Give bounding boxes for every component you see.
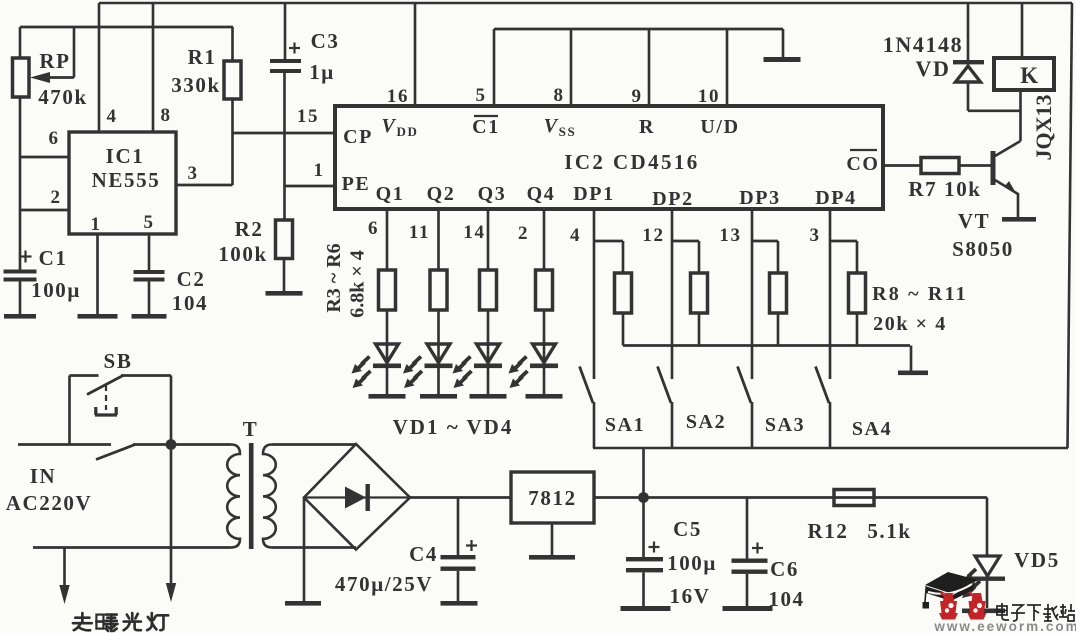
switch SA1 lever: [580, 367, 594, 404]
capacitor C6: [732, 559, 768, 563]
diode VD cathode bar: [953, 60, 984, 64]
resistor R8: [615, 273, 632, 313]
potentiometer RP body: [13, 58, 30, 97]
svg-text:C3: C3: [311, 29, 340, 53]
svg-text:C4: C4: [409, 542, 438, 566]
pushbutton SB cap: [95, 413, 117, 416]
potentiometer RP lead top: [19, 27, 22, 58]
resistor R12: [834, 490, 874, 506]
svg-text:SA4: SA4: [852, 418, 892, 440]
wire Q1 pin: [386, 209, 389, 270]
svg-text:470k: 470k: [38, 85, 88, 109]
relay K box: [994, 58, 1054, 90]
wire R2 bottom: [283, 259, 286, 293]
wire top bus (pins 5,8,9,10): [494, 28, 783, 31]
svg-text:VD1 ~ VD4: VD1 ~ VD4: [393, 415, 514, 439]
resistor R2: [276, 220, 293, 259]
watermark pen icon: [925, 572, 978, 594]
watermark 电子下载站: [997, 603, 1075, 621]
label 去曝光灯: [73, 613, 168, 631]
svg-text:C5: C5: [673, 517, 702, 541]
capacitor C5 plus: [649, 546, 660, 548]
wire secondary bottom: [272, 546, 356, 549]
svg-text:Q2: Q2: [427, 183, 456, 205]
svg-text:16: 16: [387, 86, 409, 107]
wire R6 to LED: [543, 310, 546, 363]
wire secondary top: [272, 443, 356, 446]
wire VD3 cathode: [487, 368, 490, 394]
svg-text:VD: VD: [916, 56, 951, 81]
svg-text:R2: R2: [235, 217, 264, 241]
potentiometer RP wiper: [73, 27, 76, 78]
ground C6: [723, 606, 773, 611]
wire R11 bottom: [856, 313, 859, 346]
led VD2 arrows: [413, 357, 421, 365]
svg-text:C1: C1: [39, 246, 68, 270]
wire VD1 cathode: [386, 368, 389, 394]
svg-text:Q3: Q3: [478, 183, 507, 205]
wire C4 bottom: [457, 571, 460, 601]
svg-text:12: 12: [642, 225, 664, 246]
svg-text:Q1: Q1: [376, 183, 405, 205]
wire AC top-right: [133, 443, 231, 446]
switch SA4 lever: [816, 367, 830, 404]
bridge rectifier diamond: [304, 444, 410, 550]
wire relay top: [1021, 3, 1024, 58]
wire R9 bottom: [698, 313, 701, 346]
svg-text:104: 104: [172, 291, 208, 315]
ground 7812: [529, 555, 575, 560]
wire RP bottom / left column: [19, 97, 22, 270]
led VD3: [477, 344, 500, 363]
svg-text:2: 2: [518, 223, 529, 244]
svg-text:C1: C1: [472, 116, 500, 138]
wire R3 to LED: [386, 310, 389, 363]
svg-text:1N4148: 1N4148: [883, 32, 964, 57]
svg-text:SA2: SA2: [686, 411, 726, 433]
arrow to lamp 2: [170, 445, 173, 586]
svg-text:R12: R12: [808, 519, 849, 543]
ground C2: [132, 314, 167, 319]
svg-text:14: 14: [463, 222, 485, 243]
wire R5 to LED: [487, 310, 490, 363]
svg-text:NE555: NE555: [92, 168, 161, 192]
switch SA3 lever: [738, 367, 752, 404]
svg-text:R: R: [639, 116, 655, 138]
led VD5 arrows: [968, 569, 976, 577]
svg-text:IN: IN: [30, 464, 57, 488]
wire right edge rail: [1068, 3, 1073, 448]
svg-text:6.8k × 4: 6.8k × 4: [347, 250, 369, 318]
op-amp U1 IC1 NE555 box: [69, 132, 176, 234]
wire Q3 pin: [487, 209, 490, 270]
svg-text:3: 3: [809, 225, 820, 246]
wire VD4 cathode: [543, 368, 546, 394]
regulator 7812 box: [511, 472, 594, 523]
resistor R11: [849, 273, 866, 313]
pin 5 wire: [148, 234, 151, 270]
svg-text:Q4: Q4: [527, 183, 556, 205]
wire DP4 pin: [829, 209, 832, 379]
pin 1 wire: [96, 234, 99, 314]
wire bus drop: [910, 346, 913, 372]
svg-text:S8050: S8050: [952, 237, 1014, 261]
ground VD2: [420, 394, 457, 399]
svg-text:C2: C2: [177, 267, 206, 291]
wire pin8 drop: [152, 3, 155, 132]
svg-text:AC220V: AC220V: [6, 491, 93, 515]
wire Q2 pin: [437, 209, 440, 270]
wire SA4 bottom: [829, 402, 832, 448]
svg-text:K: K: [1020, 63, 1040, 88]
wire R8 bottom: [622, 313, 625, 346]
resistor R1: [224, 61, 241, 99]
resistor R5: [480, 270, 497, 310]
svg-text:9: 9: [631, 86, 642, 107]
wire bridge out: [410, 496, 511, 499]
wire R12 to VD5: [986, 498, 989, 557]
led VD5 bar: [970, 577, 1005, 581]
resistor R1 lead: [231, 27, 234, 61]
led VD2: [427, 344, 450, 363]
wire R9 branch: [672, 240, 699, 243]
wire C2 bottom: [148, 282, 151, 315]
ground VD1: [369, 394, 406, 399]
led VD1: [376, 344, 399, 363]
svg-text:IC1: IC1: [106, 144, 145, 168]
transistor VT collector: [995, 141, 1021, 156]
svg-text:PE: PE: [342, 173, 371, 195]
resistor R9: [691, 273, 708, 313]
resistor R3: [379, 270, 396, 310]
wire DP3 pin: [751, 209, 754, 379]
svg-text:10: 10: [698, 86, 720, 107]
svg-text:8: 8: [553, 85, 564, 106]
svg-text:CO: CO: [846, 153, 879, 175]
svg-text:3: 3: [187, 163, 198, 184]
wire AC top-left: [18, 443, 111, 446]
svg-text:IC2 CD4516: IC2 CD4516: [564, 150, 699, 174]
resistor R6: [536, 270, 553, 310]
capacitor C5: [626, 557, 663, 561]
svg-text:1μ: 1μ: [309, 60, 335, 84]
wire R7 to base: [959, 164, 991, 167]
pin 9 wire: [648, 29, 651, 106]
wire CO pin: [883, 164, 921, 167]
svg-text:www.eeworm.com: www.eeworm.com: [933, 619, 1076, 633]
wire VD bottom: [967, 82, 970, 111]
svg-text:DP4: DP4: [815, 187, 856, 209]
wire C5 lead: [642, 498, 645, 558]
wire C4 branch: [457, 498, 460, 556]
wire upper sub-rail (RP/R1/pins4,8): [20, 26, 233, 29]
svg-text:VD5: VD5: [1014, 548, 1060, 572]
svg-text:4: 4: [570, 225, 581, 246]
ic U2 IC2 CD4516 box: [335, 106, 883, 209]
ground C1: [4, 314, 36, 319]
capacitor C3 lead: [284, 3, 287, 59]
svg-text:U/D: U/D: [700, 116, 739, 138]
bridge diode: [345, 487, 366, 509]
svg-text:5: 5: [475, 85, 486, 106]
svg-text:4: 4: [106, 106, 117, 127]
svg-text:6: 6: [368, 218, 379, 239]
capacitor C1 plus: [20, 255, 32, 257]
svg-text:6: 6: [48, 128, 59, 149]
ground VT: [1002, 217, 1036, 222]
svg-text:11: 11: [409, 222, 430, 243]
wire pin4 drop: [98, 3, 101, 132]
wire DP2 pin: [671, 209, 674, 379]
svg-text:R8 ~ R11: R8 ~ R11: [872, 283, 968, 305]
ground C5: [621, 606, 671, 611]
pin 6 wire: [20, 156, 69, 159]
svg-text:JQX13: JQX13: [1031, 95, 1056, 161]
capacitor C6 plus: [752, 547, 763, 549]
ground pin1: [78, 314, 118, 319]
wire C1 bottom: [19, 282, 22, 315]
ground R8-R11: [898, 371, 928, 376]
svg-text:16V: 16V: [670, 584, 711, 608]
wire SB branch top-right: [121, 374, 171, 377]
svg-text:330k: 330k: [171, 73, 221, 97]
diode VD triangle: [956, 66, 981, 82]
wire R8-R11 bus: [623, 344, 910, 347]
wire C3 bottom column: [283, 73, 286, 220]
wire SB branch top-left: [70, 374, 99, 377]
wire R11 branch: [830, 240, 857, 243]
svg-text:2: 2: [50, 187, 61, 208]
resistor R7: [921, 158, 959, 174]
wire C6 bottom: [746, 574, 749, 606]
ground C4: [441, 601, 478, 606]
pin 10 wire: [726, 29, 729, 106]
wire R8 branch: [594, 240, 623, 243]
wire VD2 cathode: [437, 368, 440, 394]
wire bridge left down: [303, 498, 306, 602]
svg-text:13: 13: [719, 225, 741, 246]
pin 3 wire: [176, 184, 233, 187]
resistor R4: [430, 270, 447, 310]
transformer T core: [249, 443, 254, 549]
ground VD5: [962, 609, 1005, 614]
pin 5 wire: [493, 29, 496, 106]
resistor R10: [770, 273, 787, 313]
transistor VT emitter: [995, 180, 1018, 194]
transistor VT base bar: [991, 151, 996, 185]
capacitor C2: [134, 270, 165, 274]
capacitor C4 plus: [466, 544, 477, 546]
wire SA1 bottom: [593, 402, 596, 448]
led VD4 arrows: [519, 357, 527, 365]
wire R10 branch: [752, 240, 778, 243]
svg-text:100μ: 100μ: [667, 551, 717, 575]
transformer T primary: [227, 445, 240, 548]
svg-text:SB: SB: [104, 349, 133, 373]
switch SA2 lever: [658, 367, 672, 404]
led VD3 arrows: [463, 357, 471, 365]
svg-text:R7 10k: R7 10k: [908, 177, 981, 201]
wire bus to ground: [782, 29, 785, 57]
wire VD5 bottom: [986, 581, 989, 608]
arrow to lamp 1: [63, 548, 66, 588]
led VD4: [533, 344, 556, 363]
node 12V out: [638, 492, 649, 503]
svg-text:104: 104: [768, 587, 804, 611]
svg-text:1: 1: [90, 214, 101, 235]
svg-text:8: 8: [160, 105, 171, 126]
led VD1 arrows: [362, 357, 370, 365]
bridge mid wire: [304, 496, 410, 498]
pin 8 wire: [570, 29, 573, 106]
svg-text:DP2: DP2: [652, 188, 693, 210]
node AC junction: [166, 439, 177, 450]
wire DP1 pin: [593, 209, 596, 379]
svg-text:DP3: DP3: [739, 187, 780, 209]
wire PE link: [285, 185, 336, 188]
ground bus: [764, 57, 801, 62]
svg-text:R3 ~ R6: R3 ~ R6: [323, 243, 345, 312]
svg-text:5: 5: [143, 212, 154, 233]
switch SB lever: [87, 376, 123, 395]
svg-text:CP: CP: [343, 126, 373, 148]
wire SA2 bottom: [671, 402, 674, 448]
watermark bugs 虫虫: [943, 593, 954, 601]
transformer T secondary: [263, 445, 276, 548]
wire 7812 out: [594, 496, 987, 499]
svg-text:T: T: [243, 417, 259, 441]
wire Q4 pin: [543, 209, 546, 270]
ground VD4: [526, 394, 563, 399]
wire SA bottom rail: [593, 447, 1068, 450]
wire R1 bottom to CP: [231, 99, 234, 133]
svg-text:R1: R1: [188, 45, 217, 69]
ground R2: [266, 291, 303, 296]
ground VD3: [470, 394, 507, 399]
svg-text:1: 1: [313, 160, 324, 181]
wire VD top: [967, 3, 970, 60]
capacitor C1: [4, 270, 37, 274]
svg-text:VT: VT: [958, 209, 990, 233]
svg-text:20k × 4: 20k × 4: [873, 313, 947, 335]
pin 16 wire: [414, 3, 417, 106]
ground bridge: [285, 601, 321, 606]
wire C5 bottom: [642, 573, 645, 607]
wire SA3 bottom: [751, 402, 754, 448]
capacitor C4: [441, 555, 476, 559]
wire R10 bottom: [777, 313, 780, 346]
wire C6 lead: [746, 498, 749, 559]
wire 7812 ground: [551, 523, 554, 555]
svg-text:100μ: 100μ: [31, 278, 81, 302]
pin 2 wire: [20, 209, 69, 212]
pushbutton SB link: [105, 385, 107, 410]
svg-text:SA3: SA3: [765, 414, 805, 436]
svg-text:15: 15: [297, 106, 319, 127]
svg-text:C6: C6: [770, 557, 799, 581]
svg-text:100k: 100k: [218, 242, 268, 266]
svg-text:RP: RP: [39, 49, 70, 73]
capacitor C3 plus: [289, 47, 300, 49]
wire R4 to LED: [437, 310, 440, 363]
wire +12V top rail: [99, 2, 1072, 5]
switch main lever: [96, 445, 135, 460]
svg-text:DP1: DP1: [573, 183, 614, 205]
wire emitter to ground: [1017, 193, 1020, 217]
capacitor C3: [270, 59, 301, 63]
wire AC bottom: [33, 546, 231, 549]
led VD5 triangle: [975, 556, 1000, 576]
svg-text:SA1: SA1: [605, 414, 645, 436]
svg-text:7812: 7812: [528, 486, 576, 510]
svg-text:5.1k: 5.1k: [867, 519, 911, 543]
svg-text:470μ/25V: 470μ/25V: [335, 572, 433, 596]
wire rail to node: [642, 448, 645, 498]
